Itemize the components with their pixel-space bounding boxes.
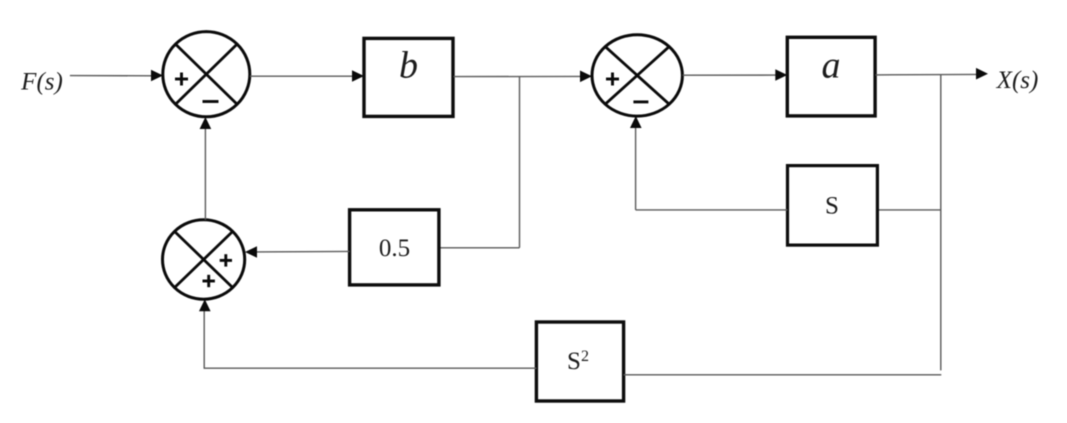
wire from tap down-corner left into block S right side: [877, 209, 940, 211]
wire block a to output X(s): [876, 73, 978, 76]
wire block 0.5 output left to SJ3: [257, 250, 350, 253]
node X(s) output label: [996, 67, 1039, 94]
wire SJ1 output to block b: [250, 75, 355, 77]
svg-text:0.5: 0.5: [379, 235, 410, 262]
summing junction SJ2 (circle with X, + left, - bottom): [592, 35, 682, 116]
SJ3 plus sign (bottom input): [203, 275, 215, 287]
wire block b to summing junction SJ2: [454, 75, 583, 77]
wire from right tap corner left into block S^2 right side: [624, 374, 942, 376]
wire SJ2 output to block a: [683, 74, 777, 76]
svg-text:S2: S2: [567, 348, 589, 375]
block b: [364, 38, 453, 116]
SJ2 minus sign (bottom input): [633, 100, 648, 103]
SJ1 minus sign (bottom input): [203, 100, 219, 103]
SJ1 plus sign (left input): [175, 73, 188, 86]
arrowhead into SJ3 bottom (plus input): [199, 299, 211, 311]
wire up from S^2 row into SJ3 bottom: [203, 310, 205, 369]
block S^2: [536, 322, 623, 401]
wire from tap corner left into block 0.5 right side: [439, 247, 520, 249]
svg-text:F(s): F(s): [20, 68, 63, 95]
wire tap down from b output to 0.5 row: [519, 77, 521, 248]
SJ3 plus sign (right input): [220, 254, 232, 266]
arrowhead into SJ3 right input (pointing left): [245, 246, 257, 258]
wire up from S row into SJ2 bottom: [635, 127, 637, 210]
wire tap down from output line to S2 row: [940, 75, 942, 371]
svg-text:b: b: [399, 45, 418, 87]
svg-text:S: S: [825, 193, 839, 220]
wire SJ3 output up to SJ1 bottom: [204, 128, 206, 220]
summing junction SJ3 (circle with X, + right, + bottom): [163, 220, 245, 299]
block 0.5: [350, 210, 439, 285]
arrowhead into block a: [775, 69, 787, 81]
wire block S output left to below SJ2: [636, 209, 788, 211]
arrowhead into SJ2 bottom (minus input): [630, 116, 642, 128]
SJ2 plus sign (left input): [606, 73, 619, 86]
wire from F(s) to summing junction SJ1: [70, 75, 153, 77]
arrowhead into SJ1 bottom (minus input): [200, 117, 212, 129]
arrowhead to X(s): [976, 68, 988, 80]
summing junction SJ1 (circle with X, + left, - bottom): [163, 32, 250, 117]
svg-text:X(s): X(s): [996, 67, 1039, 94]
block S: [788, 166, 878, 246]
wire block S^2 output left to below SJ3: [204, 367, 536, 369]
arrowhead into SJ2 left input: [580, 71, 592, 83]
arrowhead into SJ1 left input: [151, 70, 163, 82]
arrowhead into block b: [352, 70, 364, 82]
svg-text:a: a: [822, 45, 841, 87]
block a: [787, 37, 875, 116]
node F(s) input label: [20, 68, 63, 95]
